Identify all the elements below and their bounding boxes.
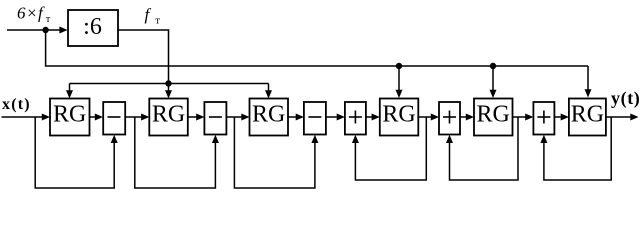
wire RG3 to subtractor S3 bbox=[288, 114, 304, 121]
subtractor S1 bbox=[103, 102, 125, 135]
register RG5 bbox=[474, 99, 513, 136]
svg-text:RG: RG bbox=[252, 102, 285, 128]
wire A1 to RG4 bbox=[366, 114, 380, 121]
wire integrator feedback loop 2 bbox=[446, 117, 518, 180]
svg-text:RG: RG bbox=[152, 102, 185, 128]
wire S3 to adder A1 bbox=[326, 114, 345, 121]
wire x(t) input bbox=[2, 114, 51, 121]
frequency divider U1 :6 bbox=[68, 10, 118, 46]
wire integrator feedback loop 3 bbox=[540, 117, 611, 180]
svg-text:RG: RG bbox=[477, 102, 510, 128]
wire RG1 to subtractor S1 bbox=[90, 114, 104, 121]
register RG2 bbox=[149, 99, 188, 136]
wire clock drop to RG6 bbox=[585, 66, 592, 98]
register RG3 bbox=[250, 99, 289, 136]
svg-text:fт: fт bbox=[145, 5, 161, 27]
svg-text:RG: RG bbox=[53, 102, 86, 128]
wire clock drop to RG2 bbox=[165, 84, 172, 99]
adder A2 bbox=[439, 102, 460, 135]
junction clock bus at RG5 bbox=[490, 63, 496, 69]
svg-text:6×fт: 6×fт bbox=[17, 4, 51, 26]
register RG6 bbox=[569, 99, 606, 136]
wire clock drop to RG4 bbox=[396, 66, 403, 98]
svg-text:x(t): x(t) bbox=[2, 96, 31, 113]
wire comb feedback loop 2 bbox=[135, 117, 219, 188]
subtractor S3 bbox=[304, 102, 326, 135]
register RG4 bbox=[380, 99, 419, 136]
svg-text::6: :6 bbox=[83, 14, 102, 40]
junction 6×fт tap bbox=[42, 27, 48, 33]
wire 6×fт input bbox=[7, 27, 68, 34]
wire integrator feedback loop 1 bbox=[352, 117, 426, 180]
wire fт from divider to comb clock bus bbox=[118, 30, 169, 84]
wire S1 to RG2 bbox=[125, 114, 149, 121]
wire RG2 to subtractor S2 bbox=[188, 114, 205, 121]
wire comb clock bus fт bbox=[70, 83, 269, 85]
wire clock drop to RG5 bbox=[490, 66, 497, 98]
svg-text:y(t): y(t) bbox=[611, 88, 640, 109]
wire 6×fт clock bus bbox=[46, 30, 588, 66]
wire S2 to RG3 bbox=[226, 114, 249, 121]
junction comb clock bus bbox=[165, 80, 171, 86]
adder A3 bbox=[533, 102, 554, 135]
label 6×fт clock input bbox=[17, 4, 51, 26]
wire RG4 to adder A2 bbox=[418, 114, 439, 121]
wire comb feedback loop 1 bbox=[35, 117, 118, 188]
label fт bbox=[145, 5, 161, 27]
wire clock drop to RG3 bbox=[265, 84, 272, 99]
svg-text:RG: RG bbox=[382, 102, 415, 128]
adder A1 bbox=[345, 102, 366, 135]
wire clock drop to RG1 bbox=[66, 84, 73, 99]
register RG1 bbox=[50, 99, 90, 136]
wire A3 to RG6 bbox=[554, 114, 569, 121]
wire comb feedback loop 3 bbox=[234, 117, 318, 188]
subtractor S2 bbox=[204, 102, 226, 135]
wire A2 to RG5 bbox=[460, 114, 474, 121]
junction clock bus at RG4 bbox=[396, 63, 402, 69]
svg-text:RG: RG bbox=[571, 102, 604, 128]
wire RG5 to adder A3 bbox=[513, 114, 534, 121]
wire y(t) output bbox=[606, 114, 639, 121]
